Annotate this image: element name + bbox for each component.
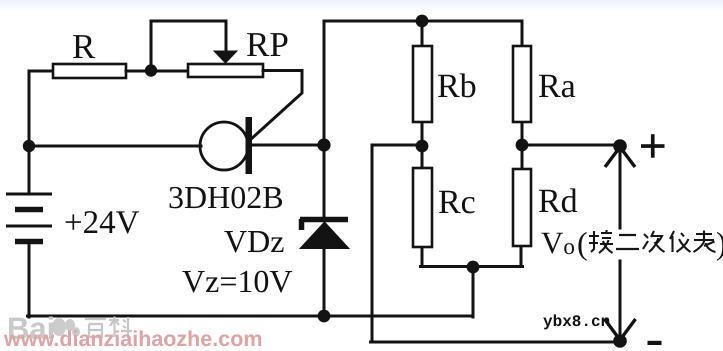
- wire: RP wiper bypass loop: [151, 21, 226, 71]
- plus terminal arrowhead: [605, 147, 635, 167]
- wire: left rail from R down to bottom rail: [29, 71, 53, 317]
- wire: Rb branch vertical top: [421, 21, 424, 46]
- watermark baike CJK ke (subject): [109, 317, 132, 339]
- resistor Ra: [513, 46, 531, 122]
- wire: Vo measuring line lower segment: [619, 261, 622, 342]
- wire: Rb bottom to Rc top: [421, 122, 424, 168]
- svg-text:VDz: VDz: [224, 223, 284, 259]
- wire: Vo measuring line upper segment: [619, 146, 622, 228]
- svg-text:Rd: Rd: [538, 183, 578, 220]
- battery BT1 short thick plate upper: [15, 207, 43, 213]
- node: plus terminal dot: [613, 139, 627, 153]
- node: battery top junction: [23, 140, 35, 152]
- wire: Ra bottom to Rd top: [521, 122, 524, 169]
- battery BT1 short thick plate bottom: [15, 239, 43, 245]
- svg-text:RP: RP: [246, 25, 289, 64]
- wire: Rb/Rc node to minus line: [372, 145, 422, 342]
- battery BT1 long plate lower: [6, 225, 52, 228]
- node: top rail / Rb junction: [416, 15, 429, 28]
- wire: bridge bottom node down to bottom rail: [472, 267, 475, 317]
- node: Rb/Rc junction: [416, 140, 429, 153]
- svg-text:www.dianziaihaozhe.com: www.dianziaihaozhe.com: [3, 327, 262, 351]
- transistor Q1 body circle: [200, 122, 248, 170]
- label CJK er (two): [616, 235, 639, 249]
- potentiometer RP wiper arrow: [214, 51, 237, 63]
- label plus sign: [641, 134, 665, 158]
- label CJK ci (times): [643, 231, 665, 252]
- svg-text:(: (: [577, 225, 588, 261]
- watermark baike gray text: [7, 311, 80, 346]
- wire: battery node to transistor: [29, 145, 201, 148]
- wire: Ra branch from top rail: [521, 21, 524, 46]
- svg-text:Rc: Rc: [438, 184, 476, 221]
- wire: Rc bottom corner to bridge bottom node: [421, 247, 475, 267]
- wire: Ra/Rd node to plus terminal: [522, 144, 620, 147]
- svg-text:Vz=10V: Vz=10V: [182, 263, 292, 299]
- resistor Rb: [413, 46, 432, 122]
- node: R/RP junction: [145, 64, 157, 76]
- wire: top rail: [324, 20, 522, 23]
- node: zener bottom junction: [318, 310, 331, 323]
- svg-text:ybx8.cn: ybx8.cn: [543, 313, 610, 331]
- wire: bottom rail: [28, 315, 474, 318]
- svg-text:Rb: Rb: [437, 68, 477, 105]
- wire: minus output line: [371, 341, 623, 344]
- svg-text:3DH02B: 3DH02B: [168, 179, 284, 215]
- zener diode VDz cathode bar with hook: [300, 219, 348, 230]
- wire: zener branch vertical: [323, 21, 326, 317]
- resistor Rc: [413, 168, 432, 247]
- label minus sign: [648, 341, 662, 345]
- wire: Rd bottom corner to bridge bottom node: [473, 246, 523, 267]
- resistor Rd: [513, 169, 531, 246]
- wire: R to RP: [126, 70, 188, 73]
- node: minus terminal dot: [613, 334, 627, 348]
- battery BT1 long plate top: [6, 193, 52, 196]
- wire: transistor to zener junction: [252, 144, 324, 147]
- node: transistor/zener junction: [317, 138, 330, 151]
- node: Ra/Rd junction: [516, 139, 529, 152]
- watermark baike CJK bai (hundred): [85, 319, 106, 337]
- transistor Q1 base bar: [246, 117, 253, 174]
- minus terminal arrowhead: [605, 319, 636, 340]
- resistor R: [53, 64, 126, 78]
- label CJK jie (connect): [589, 230, 613, 253]
- potentiometer RP body: [188, 64, 263, 77]
- svg-text:Ra: Ra: [538, 68, 576, 105]
- label CJK biao (meter): [694, 231, 716, 253]
- svg-text:R: R: [72, 27, 96, 66]
- svg-text:+24V: +24V: [64, 205, 140, 241]
- zener diode VDz anode triangle: [300, 222, 349, 249]
- wire: RP right to transistor collector diagonal: [250, 71, 302, 141]
- svg-text:): ): [716, 225, 723, 261]
- node: Rc/Rd bottom junction: [467, 261, 480, 274]
- label CJK yi (instrument): [670, 231, 691, 252]
